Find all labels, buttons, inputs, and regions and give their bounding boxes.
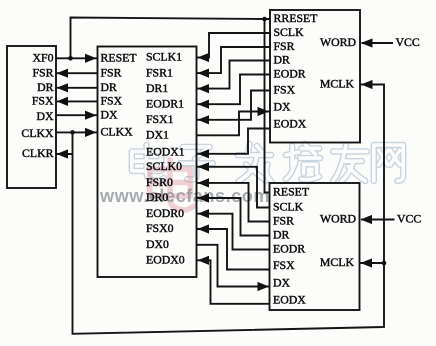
arrow into U1 DR1 — [198, 84, 210, 93]
svg-text:WORD: WORD — [320, 212, 357, 226]
svg-text:FSX: FSX — [274, 83, 296, 97]
svg-text:DR: DR — [274, 53, 291, 67]
svg-text:VCC: VCC — [396, 35, 420, 49]
svg-text:DX: DX — [273, 276, 291, 290]
svg-text:DX0: DX0 — [146, 237, 169, 251]
svg-text:FSR: FSR — [273, 214, 294, 228]
svg-text:VCC: VCC — [397, 212, 421, 226]
arrow into U3 MCLK — [361, 258, 373, 267]
wire U1 DR0 to U3 — [197, 198, 270, 236]
wire U1 DX1 to U2 — [197, 112, 271, 136]
arrow into U2 DX — [258, 107, 270, 116]
svg-text:EODR: EODR — [274, 67, 306, 81]
wire U1 FSR1 to U2 — [197, 47, 271, 73]
svg-text:DX: DX — [36, 109, 54, 123]
arrow into U1 SCLK1 — [198, 53, 210, 62]
junction MCLK net — [382, 261, 387, 266]
wire XF0 reset net top — [71, 18, 271, 59]
junction CLKX — [70, 130, 75, 135]
svg-text:EODR0: EODR0 — [146, 206, 184, 220]
arrow into U1 SCLK0 — [198, 162, 210, 171]
interface block U1 box — [98, 47, 197, 278]
arrow into U1 EODR1 — [198, 100, 210, 109]
junction XF0 — [68, 56, 73, 61]
svg-text:FSR: FSR — [274, 39, 295, 53]
svg-text:DX1: DX1 — [146, 128, 169, 142]
wire FSR — [56, 72, 98, 74]
svg-text:FSR: FSR — [33, 65, 54, 79]
wire U1 SCLK0 to U3 — [197, 167, 270, 208]
wire U1 EODX0 to U3 — [197, 260, 270, 304]
wire U1 DX0 to U3 — [197, 245, 270, 287]
svg-text:FSR: FSR — [101, 65, 122, 79]
arrow into U1 DR0 — [198, 193, 210, 202]
arrow into U1 EODX0 — [198, 256, 210, 265]
svg-text:FSR1: FSR1 — [146, 65, 173, 79]
wire CLKX to MCLK net — [73, 85, 385, 334]
DSP block box — [7, 46, 56, 188]
svg-text:SCLK0: SCLK0 — [146, 159, 182, 173]
svg-text:MCLK: MCLK — [320, 255, 355, 269]
arrow into U1 FSR1 — [198, 69, 210, 78]
wire U1 FSR0 to U3 — [197, 183, 270, 222]
svg-text:DR: DR — [101, 80, 118, 94]
svg-text:DR1: DR1 — [146, 81, 168, 95]
arrow into DSP FSR — [57, 69, 69, 78]
arrow into DSP CLKR — [57, 149, 69, 158]
wire DR — [56, 87, 98, 89]
wire reset net down to U3 — [265, 19, 270, 193]
svg-text:EODX1: EODX1 — [146, 144, 185, 158]
wire DX — [56, 114, 98, 116]
wire U1 EODR1 to U2 — [197, 75, 271, 105]
codec U3 box (bottom) — [270, 183, 360, 310]
svg-text:EODR: EODR — [273, 242, 305, 256]
svg-text:www.elecfans.com: www.elecfans.com — [99, 186, 270, 206]
svg-text:EODX: EODX — [273, 293, 306, 307]
wire VCC to U2 WORD — [362, 42, 394, 44]
wire U1 SCLK1 to U2 — [197, 33, 271, 58]
svg-text:DR: DR — [37, 80, 54, 94]
arrow into U1 FSX0 — [198, 224, 210, 233]
arrow into U1 EODR0 — [198, 209, 210, 218]
svg-text:FSX0: FSX0 — [146, 221, 174, 235]
wire U1 DR1 to U2 — [197, 61, 271, 89]
svg-text:MCLK: MCLK — [320, 77, 355, 91]
svg-text:FSR0: FSR0 — [146, 175, 173, 189]
codec U2 box (top) — [270, 10, 360, 143]
svg-text:RESET: RESET — [273, 185, 310, 199]
arrow into U1 FSR0 — [198, 178, 210, 187]
svg-text:SCLK: SCLK — [273, 200, 304, 214]
svg-text:DR: DR — [273, 228, 290, 242]
junction reset net — [262, 17, 267, 22]
wire CLKX — [56, 131, 98, 133]
svg-text:DX: DX — [274, 100, 292, 114]
svg-text:RESET: RESET — [101, 51, 138, 65]
wire U1 FSX0 to U3 — [197, 229, 270, 270]
wire VCC to U3 WORD — [361, 219, 395, 221]
arrow into U1 FSX1 — [198, 115, 210, 124]
arrow into U1 EODX1 — [198, 149, 210, 158]
svg-text:EODX: EODX — [274, 117, 307, 131]
arrow into U1 DX — [85, 111, 97, 120]
svg-text:DR0: DR0 — [146, 190, 168, 204]
arrow into DSP FSX — [57, 97, 69, 106]
wire FSX — [56, 100, 98, 102]
svg-text:WORD: WORD — [320, 35, 357, 49]
arrow into U3 DX — [258, 282, 270, 291]
svg-text:CLKR: CLKR — [22, 146, 54, 160]
arrow into U1 CLKX — [85, 128, 97, 137]
svg-text:SCLK1: SCLK1 — [146, 50, 182, 64]
svg-text:FSX1: FSX1 — [146, 112, 174, 126]
arrow into U3 WORD — [361, 215, 373, 224]
wire XF0 to RESET — [56, 57, 98, 59]
watermark pink character — [150, 160, 194, 210]
arrow into U2 MCLK — [361, 80, 373, 89]
svg-text:FSX: FSX — [273, 258, 295, 272]
svg-text:FSX: FSX — [32, 94, 54, 108]
svg-text:FSX: FSX — [101, 94, 123, 108]
svg-text:XF0: XF0 — [33, 51, 54, 65]
svg-text:EODX0: EODX0 — [146, 253, 185, 267]
svg-text:EODR1: EODR1 — [146, 96, 184, 110]
svg-text:SCLK: SCLK — [274, 25, 305, 39]
watermark blue characters — [132, 145, 164, 181]
wire U1 FSX1 to U2 — [197, 91, 271, 120]
arrow into U2 WORD — [361, 38, 373, 47]
wire MCLK tap U3 — [360, 262, 385, 264]
wire CLKR tap — [56, 153, 73, 155]
arrow into U1 RESET — [85, 54, 97, 63]
svg-text:DX: DX — [101, 107, 119, 121]
svg-text:CLKX: CLKX — [21, 126, 54, 140]
svg-text:CLKX: CLKX — [101, 125, 134, 139]
wire U1 EODR0 to U3 — [197, 214, 270, 250]
arrow into DSP DR — [57, 83, 69, 92]
wire U1 EODX1 to U2 — [197, 129, 271, 154]
svg-text:RRESET: RRESET — [274, 11, 319, 25]
